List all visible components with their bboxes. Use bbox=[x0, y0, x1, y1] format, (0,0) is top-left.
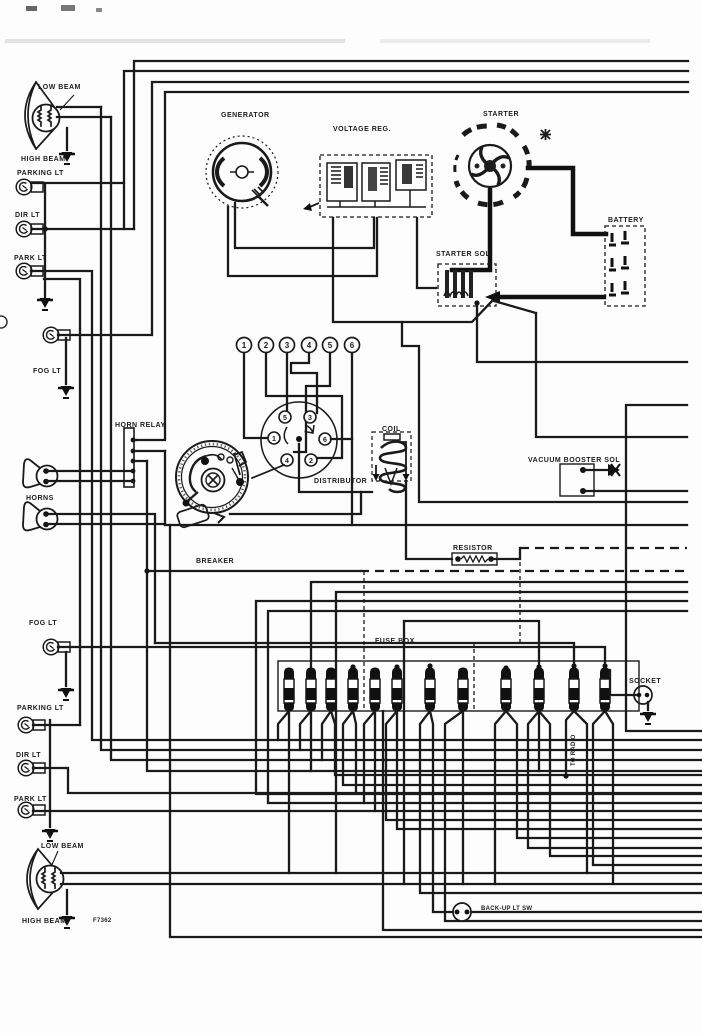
svg-text:F7362: F7362 bbox=[93, 918, 112, 924]
svg-text:3: 3 bbox=[308, 415, 312, 422]
svg-text:FOG LT: FOG LT bbox=[33, 368, 61, 375]
svg-text:PARK LT: PARK LT bbox=[14, 796, 47, 803]
svg-text:PARKING LT: PARKING LT bbox=[17, 705, 64, 712]
svg-text:HIGH BEAM: HIGH BEAM bbox=[21, 156, 66, 163]
svg-text:LOW BEAM: LOW BEAM bbox=[38, 84, 81, 91]
svg-text:BACK-UP LT SW: BACK-UP LT SW bbox=[481, 906, 532, 912]
svg-text:4: 4 bbox=[285, 458, 289, 465]
svg-text:1: 1 bbox=[242, 341, 247, 350]
svg-text:5: 5 bbox=[328, 341, 333, 350]
svg-text:6: 6 bbox=[323, 437, 327, 444]
svg-text:3: 3 bbox=[285, 341, 290, 350]
svg-text:LOW BEAM: LOW BEAM bbox=[41, 843, 84, 850]
svg-text:DIR LT: DIR LT bbox=[15, 212, 40, 219]
svg-text:FOG LT: FOG LT bbox=[29, 620, 57, 627]
svg-text:STARTER: STARTER bbox=[483, 111, 519, 118]
svg-text:STARTER SOL: STARTER SOL bbox=[436, 251, 491, 258]
svg-text:DISTRIBUTOR: DISTRIBUTOR bbox=[314, 478, 367, 485]
svg-text:BATTERY: BATTERY bbox=[608, 217, 644, 224]
svg-text:1: 1 bbox=[272, 436, 276, 443]
svg-text:DIR LT: DIR LT bbox=[16, 752, 41, 759]
svg-text:FUSE BOX: FUSE BOX bbox=[375, 638, 415, 645]
svg-text:5: 5 bbox=[283, 415, 287, 422]
svg-text:TO RADIO: TO RADIO bbox=[571, 734, 577, 766]
svg-text:4: 4 bbox=[307, 341, 312, 350]
svg-text:PARKING LT: PARKING LT bbox=[17, 170, 64, 177]
svg-text:6: 6 bbox=[350, 341, 355, 350]
svg-text:2: 2 bbox=[264, 341, 269, 350]
svg-text:BREAKER: BREAKER bbox=[196, 558, 234, 565]
svg-text:PARK LT: PARK LT bbox=[14, 255, 47, 262]
svg-text:SOCKET: SOCKET bbox=[629, 678, 661, 685]
svg-text:RESISTOR: RESISTOR bbox=[453, 545, 493, 552]
svg-text:2: 2 bbox=[309, 458, 313, 465]
svg-text:VACUUM BOOSTER SOL: VACUUM BOOSTER SOL bbox=[528, 457, 620, 464]
svg-text:HORN RELAY: HORN RELAY bbox=[115, 422, 166, 429]
svg-text:HORNS: HORNS bbox=[26, 495, 54, 502]
svg-text:GENERATOR: GENERATOR bbox=[221, 112, 270, 119]
svg-text:VOLTAGE REG.: VOLTAGE REG. bbox=[333, 126, 391, 133]
svg-text:HIGH BEAM: HIGH BEAM bbox=[22, 918, 67, 925]
svg-text:COIL: COIL bbox=[382, 426, 401, 433]
